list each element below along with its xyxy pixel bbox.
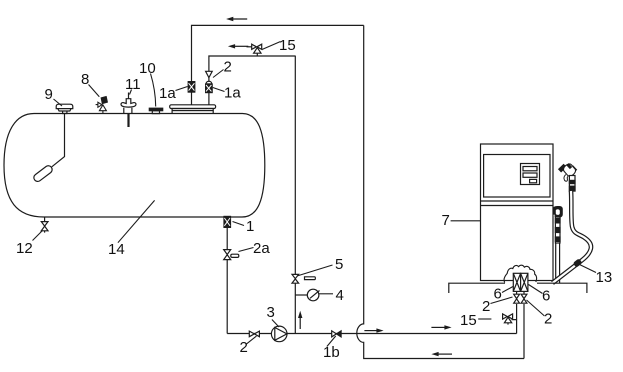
label 4: [319, 293, 333, 295]
arrow top vapor left: [231, 18, 247, 20]
label 2a: [239, 248, 254, 252]
svg-text:8: 8: [81, 71, 89, 88]
hose 13: [553, 191, 592, 283]
svg-text:10: 10: [139, 60, 156, 77]
wire bypass riser: [294, 283, 296, 333]
svg-text:1a: 1a: [224, 85, 241, 102]
label 1: [233, 222, 245, 226]
svg-text:12: 12: [16, 240, 33, 257]
wire relief line B: [209, 56, 295, 105]
label 2 pump: [246, 336, 256, 344]
wire vapor drop with crossover: [357, 25, 524, 358]
label 2 disp right: [527, 300, 545, 316]
label 1a right: [213, 88, 225, 92]
flame arrester 1a right: [206, 81, 212, 84]
label 7: [451, 220, 481, 222]
svg-text:7: 7: [442, 212, 450, 229]
foot valve 1: [226, 227, 228, 249]
svg-text:14: 14: [108, 241, 125, 258]
svg-text:1a: 1a: [159, 85, 176, 102]
dispenser 7 body: [481, 144, 554, 281]
svg-text:13: 13: [596, 269, 613, 286]
foundation cloud: [504, 265, 536, 282]
check valve 1b: [332, 331, 337, 337]
label 11: [130, 90, 132, 95]
shutoff valve 6 left: [513, 273, 520, 291]
dispenser base platform: [449, 283, 587, 293]
svg-text:2: 2: [482, 298, 490, 315]
valve 2 pump suction: [249, 331, 259, 337]
valve 2 dispenser right: [521, 291, 527, 303]
level gauge 9 cap: [56, 104, 73, 113]
nozzle boot: [553, 207, 562, 217]
svg-text:9: 9: [45, 86, 53, 103]
svg-text:2: 2: [544, 311, 552, 328]
arrow vapor return left: [436, 353, 452, 355]
dispenser display box: [521, 164, 540, 185]
dispenser display panel: [484, 155, 550, 198]
arrow relief left: [233, 45, 249, 47]
breather valve 15 right: [508, 320, 517, 325]
label 14: [118, 200, 155, 242]
hose coupling dot: [574, 259, 582, 267]
svg-text:11: 11: [125, 76, 141, 93]
svg-text:1b: 1b: [323, 344, 340, 361]
drain valve 12: [44, 217, 46, 233]
label 6 right: [529, 285, 543, 294]
float: [32, 164, 53, 183]
valve 2 dispenser left: [514, 291, 520, 303]
wire riser to dispenser valves: [516, 304, 518, 334]
manhole neck: [172, 111, 213, 114]
label 8: [89, 85, 100, 97]
svg-text:2: 2: [240, 339, 248, 356]
level gauge wire: [52, 114, 65, 167]
svg-text:4: 4: [336, 287, 344, 304]
holster column: [555, 217, 560, 243]
valve 5: [292, 274, 299, 283]
label 6 left: [502, 287, 513, 293]
label 13: [580, 265, 597, 273]
nozzle: [559, 164, 567, 171]
arrow supply right 2: [431, 326, 446, 328]
nozzle coupling: [569, 176, 575, 192]
label 1b: [327, 336, 336, 347]
tank 14 body: [4, 114, 265, 218]
svg-text:1: 1: [246, 218, 254, 235]
wire vapor line A: [192, 25, 364, 104]
pump 3: [271, 326, 287, 342]
label 2 disp left: [491, 297, 513, 304]
label 5: [297, 265, 333, 276]
gauge 4: [295, 294, 307, 296]
svg-text:2a: 2a: [253, 240, 270, 257]
breather valve 15 top: [256, 53, 258, 56]
svg-text:6: 6: [494, 286, 502, 303]
dispenser divider band: [481, 201, 554, 206]
valve 5 handle: [305, 277, 316, 280]
arrow supply right 1: [364, 330, 378, 332]
valve 2a: [224, 250, 231, 260]
svg-text:3: 3: [267, 304, 275, 321]
label 12: [33, 231, 43, 241]
cap 10: [149, 108, 162, 111]
arrow bypass up: [299, 316, 301, 329]
label 2 top: [213, 70, 224, 78]
svg-text:15: 15: [279, 37, 296, 54]
svg-text:15: 15: [460, 312, 477, 329]
valve 2 tank top: [206, 71, 213, 77]
manhole plate: [170, 105, 216, 109]
flame arrester 1a left: [188, 82, 195, 93]
shutoff valve 6 right: [521, 273, 528, 291]
label 10: [151, 74, 156, 107]
svg-text:6: 6: [542, 288, 550, 305]
label 9: [54, 99, 63, 106]
valve 8: [96, 105, 103, 114]
wire suction pipe to dispenser: [227, 333, 516, 335]
label 15 right: [478, 318, 491, 320]
label 1a left: [176, 87, 188, 91]
arrows: [226, 17, 452, 357]
valve 2a handle: [231, 254, 239, 257]
svg-text:2: 2: [224, 59, 232, 76]
label 3: [272, 320, 279, 328]
svg-text:5: 5: [335, 256, 343, 273]
label 15 top: [262, 42, 281, 50]
vent 11: [128, 93, 130, 99]
